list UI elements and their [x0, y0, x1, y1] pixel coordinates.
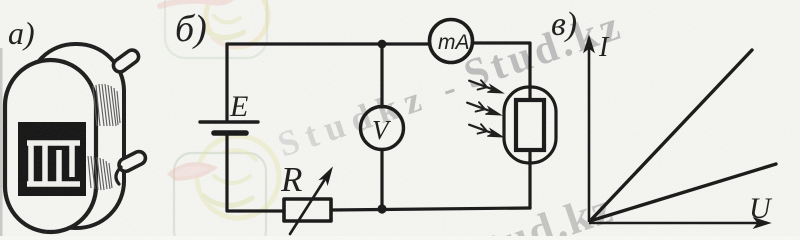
voltmeter branch lower — [380, 150, 383, 209]
wire left lower — [227, 136, 284, 211]
battery E short plate — [214, 130, 246, 136]
watermark text bottom "Stud.kz" tail — [455, 183, 619, 240]
pin top — [111, 48, 141, 75]
pin middle — [117, 149, 148, 173]
graph line shallow — [590, 164, 776, 221]
resistor R body — [284, 199, 331, 221]
watermark logo top — [160, 0, 268, 47]
watermark icon frame middle-left — [174, 153, 266, 240]
watermark icon frame top — [165, 0, 267, 58]
watermark logo middle-left — [170, 136, 279, 218]
watermark text "Stud.kz" — [458, 2, 629, 98]
wire top right — [473, 43, 530, 88]
wire left upper — [225, 44, 228, 121]
hatching lower right side — [88, 156, 112, 190]
light arrow 2 — [467, 102, 501, 115]
milliammeter U2 circle — [430, 20, 473, 63]
axis U (horizontal) — [589, 218, 770, 228]
watermark text "Studkz - " — [273, 65, 469, 165]
axis I (vertical) — [584, 36, 594, 222]
photoresistor lead bottom — [528, 150, 531, 162]
wire top left — [227, 42, 430, 45]
photoresistor element rect — [516, 100, 544, 150]
graph line steep — [590, 50, 752, 221]
device back outline — [28, 44, 124, 228]
wire bottom middle — [331, 208, 530, 210]
light arrow 1 — [469, 80, 503, 93]
photosensitive element (dark square) — [18, 122, 86, 196]
voltmeter U1 circle — [361, 107, 404, 150]
hatching upper right side — [93, 84, 120, 126]
resistor R arrow — [290, 168, 332, 234]
voltmeter branch upper — [380, 44, 383, 107]
photoresistor envelope — [504, 87, 556, 163]
left paper edge — [0, 48, 3, 236]
device front outline — [5, 60, 96, 232]
junction node bottom — [377, 204, 386, 213]
junction node top — [378, 40, 387, 49]
photoresistor lead top — [528, 88, 531, 100]
electrode pattern — [27, 143, 80, 184]
light arrow 3 — [469, 124, 503, 137]
pin middle hook — [116, 167, 121, 184]
battery E long plate — [200, 120, 258, 123]
wire right lower — [528, 162, 531, 208]
